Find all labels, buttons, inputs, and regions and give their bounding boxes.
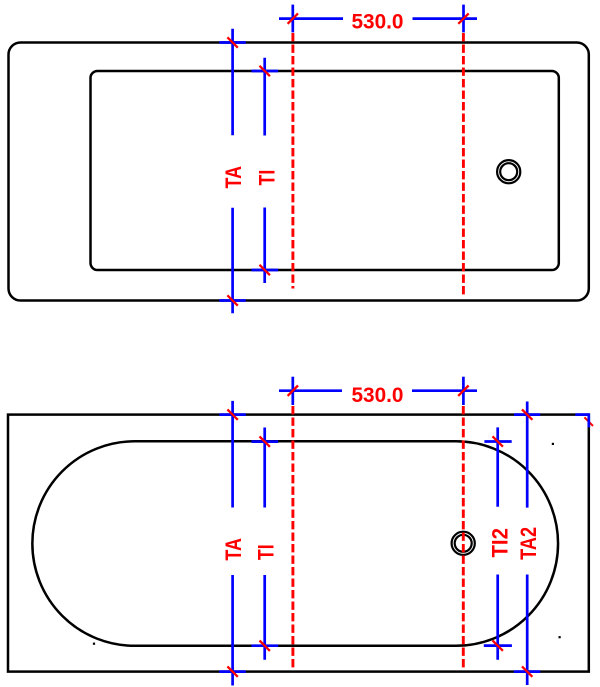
top view: drain inner circle: [500, 163, 517, 180]
bottom view: TA dimension line: [231, 401, 234, 508]
bottom view: TI2 end bars: [484, 440, 511, 443]
svg-text:TI: TI: [253, 544, 278, 560]
bottom view: TA end bars: [219, 413, 246, 416]
bottom view: TI red ticks: [260, 436, 270, 446]
bottom view: drain outer circle: [452, 532, 475, 555]
bottom view: right edge dimension fragment: [584, 417, 593, 426]
bottom view: red centerline right: [462, 406, 465, 670]
top view: TI end bars: [252, 70, 279, 73]
bottom view: TI2 dimension line: [496, 427, 499, 506]
top view: TI dimension line: [263, 58, 266, 136]
stray point near stadium lower-left: [93, 643, 95, 645]
top view: TA red ticks: [227, 37, 237, 47]
svg-text:TI: TI: [254, 170, 279, 186]
stray point near stadium upper-right: [552, 443, 554, 445]
stray point near stadium lower-right: [559, 636, 561, 638]
svg-text:530.0: 530.0: [352, 10, 404, 33]
top view: 530.0 red oblique ticks: [288, 13, 298, 23]
bottom view: TA2 end bars: [514, 413, 540, 416]
top view: drain outer circle: [497, 160, 520, 183]
top view: TI red ticks: [260, 66, 270, 76]
bottom view: 530.0 red oblique ticks: [288, 386, 298, 396]
top view: outer tub rim: [9, 43, 589, 301]
bottom view: drain inner circle: [455, 535, 472, 552]
top view: red centerline left: [291, 33, 294, 289]
svg-text:TA2: TA2: [516, 527, 541, 560]
bottom view: outer rim rectangle: [8, 415, 589, 672]
bottom view: TI end bars: [252, 440, 279, 443]
svg-text:TI2: TI2: [487, 528, 512, 558]
bottom view: inner basin stadium: [32, 441, 558, 646]
bottom view: TA2 red ticks: [522, 409, 532, 419]
bottom view: red centerline left: [291, 406, 294, 670]
bottom view: TI2 red ticks: [493, 436, 503, 446]
bottom view: 530.0 dimension end bars: [291, 377, 294, 405]
top view: red centerline right: [462, 33, 465, 298]
svg-text:TA: TA: [221, 538, 246, 561]
bottom view: 530.0 dimension line segments: [279, 389, 342, 392]
top view: TA dimension line: [231, 29, 234, 136]
svg-text:TA: TA: [221, 166, 246, 189]
svg-text:530.0: 530.0: [352, 384, 404, 407]
bottom view: TA2 dimension line: [526, 402, 529, 508]
bottom view: TA red ticks: [227, 409, 237, 419]
bottom view: TI dimension line: [263, 428, 266, 508]
top view: 530.0 dimension end bars: [291, 5, 294, 33]
top view: TA end bars: [219, 41, 246, 44]
top view: 530.0 dimension line segments: [279, 17, 343, 20]
top view: inner basin rim: [91, 71, 559, 270]
